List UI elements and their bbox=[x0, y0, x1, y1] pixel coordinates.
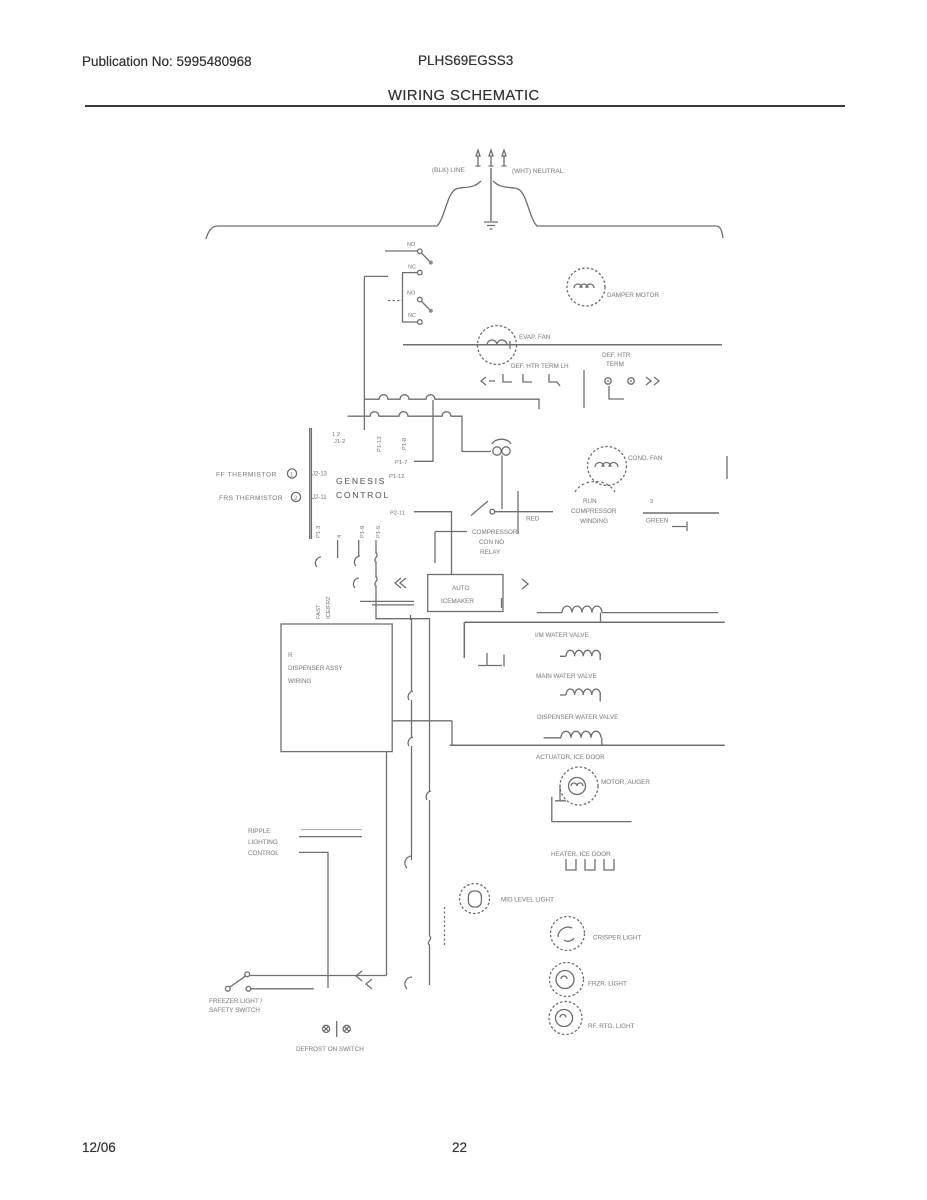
connector half bbox=[426, 791, 431, 800]
wire right neutral rail bbox=[493, 181, 723, 238]
power plug P1 bbox=[476, 150, 507, 166]
genesis control bracket bbox=[310, 428, 312, 539]
svg-text:DEFROST ON SWITCH: DEFROST ON SWITCH bbox=[296, 1046, 364, 1053]
switch S1 contact NO bbox=[418, 249, 423, 254]
header: title bbox=[388, 88, 540, 104]
svg-text:RIPPLE: RIPPLE bbox=[248, 828, 270, 835]
fast ice chevron bbox=[395, 578, 406, 588]
switch S1 lead bbox=[385, 250, 417, 252]
wire dashed sensor bbox=[444, 907, 446, 946]
wire switch top rail bbox=[250, 975, 387, 977]
wire main left drop bbox=[386, 752, 388, 976]
terminal T2 bbox=[628, 378, 634, 384]
header: publication number bbox=[82, 54, 252, 69]
wire to compressor bbox=[495, 511, 553, 513]
wire tick bbox=[410, 615, 412, 620]
wire icemaker drop bbox=[501, 598, 503, 608]
svg-text:DISPENSER WATER VALVE: DISPENSER WATER VALVE bbox=[537, 714, 618, 721]
svg-text:ICE/FRZ: ICE/FRZ bbox=[326, 596, 332, 619]
wire green ground bbox=[643, 512, 719, 514]
wire coil jog bbox=[600, 613, 602, 623]
svg-text:MAIN WATER VALVE: MAIN WATER VALVE bbox=[536, 673, 597, 680]
ground bbox=[484, 222, 498, 229]
thermistor RT2 bbox=[291, 492, 300, 502]
svg-text:LIGHTING: LIGHTING bbox=[248, 839, 278, 846]
footer: date bbox=[82, 1140, 116, 1155]
freezer light switch S3 bbox=[245, 972, 250, 977]
header rule bbox=[85, 105, 845, 107]
svg-text:4: 4 bbox=[337, 534, 343, 538]
wire drop P1-5 with splice bbox=[375, 540, 377, 601]
svg-text:P1-13: P1-13 bbox=[377, 437, 383, 452]
connector half bbox=[353, 578, 359, 588]
wire relay branch bbox=[435, 532, 467, 564]
condenser fan motor M3 bbox=[588, 447, 627, 486]
svg-text:GREEN: GREEN bbox=[646, 518, 669, 525]
wire lighting mid bbox=[299, 836, 362, 838]
terminal lug bbox=[523, 374, 532, 382]
svg-text:FF THERMISTOR: FF THERMISTOR bbox=[216, 472, 277, 479]
svg-text:J2-11: J2-11 bbox=[312, 495, 327, 501]
wire column A bbox=[411, 619, 413, 860]
terminal lug bbox=[549, 374, 560, 386]
svg-text:(BLK) LINE: (BLK) LINE bbox=[432, 167, 466, 174]
svg-text:DEF. HTR TERM LH: DEF. HTR TERM LH bbox=[511, 363, 569, 370]
svg-text:FAST: FAST bbox=[316, 604, 322, 619]
svg-text:AUTO: AUTO bbox=[452, 585, 469, 592]
wire lighting upper bbox=[301, 829, 362, 831]
svg-text:RELAY: RELAY bbox=[480, 549, 501, 556]
defrost switch S4 bbox=[323, 1021, 351, 1037]
relay coil K1 bbox=[462, 439, 511, 509]
wire stub right bbox=[726, 456, 728, 479]
wire start winding bbox=[517, 491, 519, 534]
auger motor M4 bbox=[560, 767, 598, 805]
svg-text:ACTUATOR, ICE DOOR: ACTUATOR, ICE DOOR bbox=[536, 754, 605, 761]
valve coil L3 lead bbox=[560, 692, 600, 702]
svg-text:COMPRESSOR: COMPRESSOR bbox=[472, 529, 518, 536]
splice chevrons bbox=[356, 971, 372, 989]
wire column B bbox=[428, 640, 430, 985]
refrigerator light DS4 bbox=[549, 1002, 582, 1035]
svg-text:DEF. HTR: DEF. HTR bbox=[602, 352, 631, 359]
header: model number bbox=[418, 53, 513, 68]
svg-text:COND. FAN: COND. FAN bbox=[628, 455, 663, 462]
dispenser assembly box bbox=[281, 624, 392, 752]
valve coil L3 (dispenser water) bbox=[566, 689, 600, 695]
svg-text:FRS THERMISTOR: FRS THERMISTOR bbox=[219, 495, 283, 502]
svg-text:P1-5: P1-5 bbox=[376, 526, 382, 538]
svg-text:HEATER, ICE DOOR: HEATER, ICE DOOR bbox=[551, 851, 611, 858]
evap fan motor M2 bbox=[478, 326, 517, 365]
svg-text:NC: NC bbox=[408, 313, 416, 319]
svg-text:P1-7: P1-7 bbox=[395, 460, 407, 466]
svg-text:SAFETY SWITCH: SAFETY SWITCH bbox=[209, 1007, 260, 1014]
svg-text:NO: NO bbox=[407, 291, 416, 297]
footer: page number bbox=[452, 1140, 467, 1155]
svg-text:J2-13: J2-13 bbox=[312, 472, 328, 478]
connector half bbox=[408, 737, 413, 746]
connector half bbox=[315, 557, 321, 567]
auto icemaker box bbox=[428, 575, 503, 612]
valve coil L1 leads bbox=[537, 612, 718, 614]
svg-text:ICEMAKER: ICEMAKER bbox=[441, 598, 474, 605]
thermistor RT1 bbox=[287, 469, 296, 479]
terminal bracket bbox=[609, 386, 624, 399]
svg-text:R: R bbox=[288, 652, 293, 659]
wire riser to control bbox=[363, 276, 365, 430]
svg-text:FRZR. LIGHT: FRZR. LIGHT bbox=[588, 981, 627, 988]
terminal lug bbox=[503, 374, 512, 382]
wire drop P1-3 bbox=[337, 540, 339, 558]
wire def htr drop bbox=[583, 370, 585, 408]
terminal T1 bbox=[605, 378, 611, 384]
svg-text:COMPRESSOR: COMPRESSOR bbox=[571, 508, 617, 515]
connector half bbox=[354, 556, 360, 566]
wire switch out bbox=[251, 988, 314, 990]
wire lighting drop bbox=[299, 852, 328, 988]
valve coil L2 (main water) bbox=[566, 650, 600, 656]
connector half bbox=[405, 856, 412, 868]
svg-text:TERM: TERM bbox=[606, 361, 624, 368]
svg-text:MOTOR, AUGER: MOTOR, AUGER bbox=[601, 779, 650, 786]
svg-text:GENESIS: GENESIS bbox=[336, 476, 386, 486]
svg-text:1 2: 1 2 bbox=[332, 432, 340, 438]
mid level light DS1 bbox=[460, 884, 490, 914]
connector half bbox=[408, 691, 413, 700]
svg-text:CON NO: CON NO bbox=[479, 539, 504, 546]
svg-text:CONTROL: CONTROL bbox=[248, 850, 279, 857]
svg-text:WINDING: WINDING bbox=[580, 518, 608, 525]
svg-text:RED: RED bbox=[526, 516, 540, 523]
svg-text:EVAP. FAN: EVAP. FAN bbox=[519, 334, 551, 341]
auger lead bbox=[555, 785, 566, 801]
svg-text:3: 3 bbox=[650, 499, 653, 505]
svg-text:CRISPER LIGHT: CRISPER LIGHT bbox=[593, 935, 641, 942]
wire tap bbox=[360, 601, 430, 640]
wire evap fan line bbox=[403, 344, 722, 346]
wire left line rail bbox=[206, 181, 481, 239]
valve coil L4 leads bbox=[544, 738, 602, 745]
bus wire D bbox=[450, 744, 725, 746]
svg-text:FREEZER LIGHT /: FREEZER LIGHT / bbox=[209, 998, 262, 1005]
ground lug bbox=[672, 522, 687, 532]
compressor outline arc bbox=[575, 481, 615, 492]
bus wire C bbox=[464, 622, 725, 658]
svg-text:(WHT) NEUTRAL: (WHT) NEUTRAL bbox=[512, 168, 564, 175]
valve coil L2 lead bbox=[560, 653, 600, 660]
svg-text:NC: NC bbox=[408, 265, 416, 271]
icemaker chevron right bbox=[522, 579, 528, 589]
svg-text:P1-9: P1-9 bbox=[360, 526, 366, 538]
connector half bbox=[405, 977, 412, 989]
crisper light DS2 bbox=[551, 917, 585, 951]
svg-text:J1-2: J1-2 bbox=[334, 439, 345, 445]
connector chevron right bbox=[646, 377, 659, 385]
wire drop P1-9 bbox=[358, 540, 360, 556]
wire common lead bbox=[364, 275, 388, 277]
svg-text:P1-3: P1-3 bbox=[316, 526, 322, 538]
heater element R1 bbox=[566, 859, 614, 870]
wire box tap bbox=[392, 721, 452, 745]
svg-text:CONTROL: CONTROL bbox=[336, 490, 390, 500]
switch S2 blade bbox=[422, 302, 430, 310]
svg-text:I/M WATER VALVE: I/M WATER VALVE bbox=[535, 632, 589, 639]
switch S1 blade bbox=[422, 253, 430, 261]
valve coil L4 (actuator ice door) bbox=[561, 731, 601, 737]
wire auger L bbox=[552, 797, 632, 822]
svg-text:DISPENSER ASSY: DISPENSER ASSY bbox=[288, 665, 343, 672]
freezer light DS3 bbox=[550, 963, 584, 997]
svg-text:RF. RTG. LIGHT: RF. RTG. LIGHT bbox=[588, 1023, 635, 1030]
connector chevron bbox=[481, 377, 495, 385]
svg-text:RUN: RUN bbox=[583, 498, 597, 505]
terminal tee bbox=[478, 653, 504, 667]
svg-text:WIRING: WIRING bbox=[288, 678, 312, 685]
svg-text:NO: NO bbox=[407, 242, 416, 248]
bus wire B with hops bbox=[348, 412, 463, 452]
switch S2 link (dashed) bbox=[388, 300, 402, 302]
svg-text:P1-8: P1-8 bbox=[402, 438, 408, 450]
svg-text:MID LEVEL LIGHT: MID LEVEL LIGHT bbox=[501, 897, 554, 904]
svg-text:P2-11: P2-11 bbox=[390, 511, 405, 517]
valve coil L1 (I/M water) bbox=[562, 606, 602, 613]
compressor relay switch bbox=[471, 501, 488, 516]
bus wire A with hops bbox=[365, 395, 539, 410]
svg-text:DAMPER MOTOR: DAMPER MOTOR bbox=[607, 292, 659, 299]
wire plug to ground bbox=[490, 168, 492, 221]
damper motor M1 bbox=[567, 268, 605, 306]
svg-text:P1-12: P1-12 bbox=[389, 474, 404, 480]
switch S2 bracket bbox=[403, 273, 418, 322]
